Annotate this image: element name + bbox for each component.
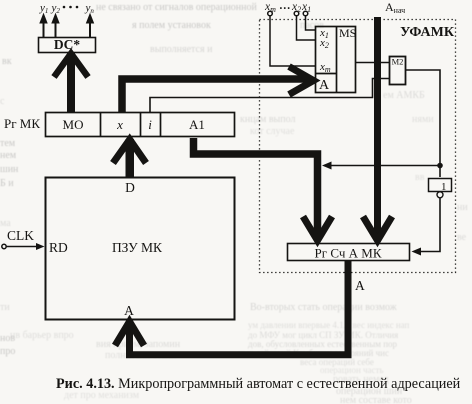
svg-text:ти: ти (0, 302, 10, 313)
wire y2 output arrow (52, 14, 59, 37)
svg-text:A: A (319, 78, 330, 93)
svg-text:вв: вв (415, 172, 425, 183)
wire i-field to M2 (150, 79, 389, 113)
thick path Рг Сч А МК to ПЗУ A input (115, 261, 348, 355)
svg-text:i: i (148, 117, 152, 132)
svg-text:УФАМК: УФАМК (400, 25, 455, 40)
svg-text:я полем установок: я полем установок (132, 20, 211, 31)
svg-text:DC*: DC* (54, 37, 80, 52)
label y1 y2 ... yn (63, 6, 79, 9)
svg-text:кнцам выпол: кнцам выпол (240, 114, 295, 125)
svg-text:D: D (125, 180, 135, 195)
svg-text:МО: МО (63, 117, 84, 132)
block 1 (incrementer) (429, 179, 452, 198)
svg-text:А1: А1 (189, 117, 205, 132)
svg-text:CLK: CLK (7, 228, 34, 243)
svg-text:ем АМКБ: ем АМКБ (383, 90, 425, 101)
label xm ... x2 x1 (264, 0, 311, 14)
svg-text:Рг МК: Рг МК (4, 116, 40, 131)
svg-text:A: A (355, 278, 365, 293)
input terminal x2 (294, 11, 315, 40)
svg-text:MS: MS (339, 26, 356, 40)
thick path A1 to Рг Сч А МК (194, 138, 333, 241)
arrow D to x-field (thick) (113, 139, 146, 177)
svg-text:…: … (279, 0, 291, 12)
svg-text:шин: шин (0, 164, 19, 175)
wire CLK to RD (2, 243, 45, 250)
input terminal x1 (303, 11, 315, 30)
wire M2 output down (406, 70, 440, 177)
block ПЗУ МК (46, 178, 235, 320)
arrow MO to DC* (thick) (54, 52, 88, 112)
svg-text:Во-вторых стать операции возмо: Во-вторых стать операции возмож (250, 302, 397, 313)
svg-text:кот случае: кот случае (250, 126, 295, 137)
block Рг Сч А МК (288, 244, 410, 261)
svg-text:1: 1 (441, 181, 447, 193)
svg-text:Б и: Б и (0, 178, 14, 189)
wire increment to A1 path (left arrow) (322, 162, 440, 170)
svg-text:М2: М2 (392, 57, 404, 67)
svg-text:ве: ве (457, 232, 467, 243)
junction node (437, 163, 443, 169)
wire y1 output arrow (40, 14, 47, 37)
wire yn output arrow (87, 14, 94, 37)
svg-text:с: с (0, 96, 5, 107)
wire 1-block to Рг Сч А МК (412, 198, 441, 256)
block DC* (39, 37, 96, 53)
register Рг МК box (46, 113, 235, 137)
svg-text:ум давлении впервые 4.1.1 вес: ум давлении впервые 4.1.1 вес индекс нап (248, 320, 410, 330)
svg-text:тем: тем (0, 138, 16, 149)
thick path x-field to MS A input (122, 67, 314, 113)
block M2 (390, 57, 406, 85)
svg-text:про: про (0, 346, 15, 357)
svg-text:не связано от сигналов операци: не связано от сигналов операционной (96, 2, 258, 13)
svg-text:нем: нем (0, 150, 17, 161)
svg-text:RD: RD (49, 240, 68, 255)
svg-text:нями: нями (412, 114, 434, 125)
wire MS output to M2 (356, 62, 389, 64)
dashed box УФАМК (260, 20, 456, 273)
svg-text:ПЗУ МК: ПЗУ МК (112, 240, 163, 255)
svg-text:Рг Сч А МК: Рг Сч А МК (315, 246, 382, 261)
svg-text:x: x (116, 117, 123, 132)
svg-text:ни: ни (457, 202, 468, 213)
svg-text:Рис. 4.13. Микропрограммный ав: Рис. 4.13. Микропрограммный автомат с ес… (56, 376, 461, 392)
block MS multiplexer (316, 26, 357, 93)
svg-text:выполняется и: выполняется и (150, 44, 213, 55)
svg-text:нем составе кото: нем составе кото (340, 395, 412, 404)
svg-text:вк: вк (2, 56, 12, 67)
input terminal xm (268, 11, 315, 66)
bus Aнач (thick vertical) (363, 17, 392, 241)
svg-text:нв барьер впро: нв барьер впро (10, 330, 74, 341)
